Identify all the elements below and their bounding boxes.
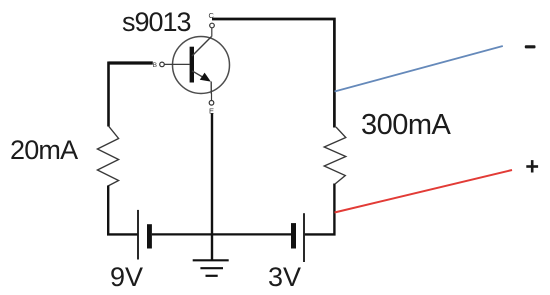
wire bottom right to right vertical (305, 184, 335, 235)
wire bottom middle (152, 233, 291, 235)
wire base to left branch top (109, 61, 153, 64)
pin C terminal (209, 11, 215, 37)
resistor R2 (300mA branch) (324, 127, 346, 184)
battery B1 9V negative plate (short thick) (147, 224, 152, 248)
transistor Q1 emitter line with arrow (192, 71, 211, 94)
wire top collector run (212, 19, 334, 128)
battery B2 3V positive plate (long) (303, 213, 305, 262)
battery B2 3V negative plate (short thick) (291, 223, 296, 248)
label plus (526, 160, 538, 172)
wire left vertical upper (107, 62, 110, 127)
pin B terminal (153, 62, 190, 69)
resistor R1 (20mA branch) (97, 126, 118, 186)
blue wire to negative lead (335, 46, 503, 92)
red wire to positive lead (335, 170, 513, 213)
svg-text:20mA: 20mA (10, 135, 78, 165)
wire left vertical lower (108, 186, 137, 235)
svg-text:3V: 3V (268, 262, 301, 292)
svg-text:s9013: s9013 (122, 7, 191, 37)
wire emitter vertical (211, 114, 213, 262)
battery B1 9V positive plate (long) (137, 210, 139, 260)
label minus (525, 45, 536, 48)
transistor Q1 body circle (173, 37, 230, 94)
ground (193, 260, 229, 276)
pin E terminal (209, 93, 214, 115)
transistor Q1 collector line (192, 37, 212, 57)
svg-text:B: B (153, 62, 157, 69)
svg-text:300mA: 300mA (361, 109, 452, 141)
transistor Q1 base bar (190, 47, 194, 83)
svg-text:9V: 9V (110, 262, 143, 292)
